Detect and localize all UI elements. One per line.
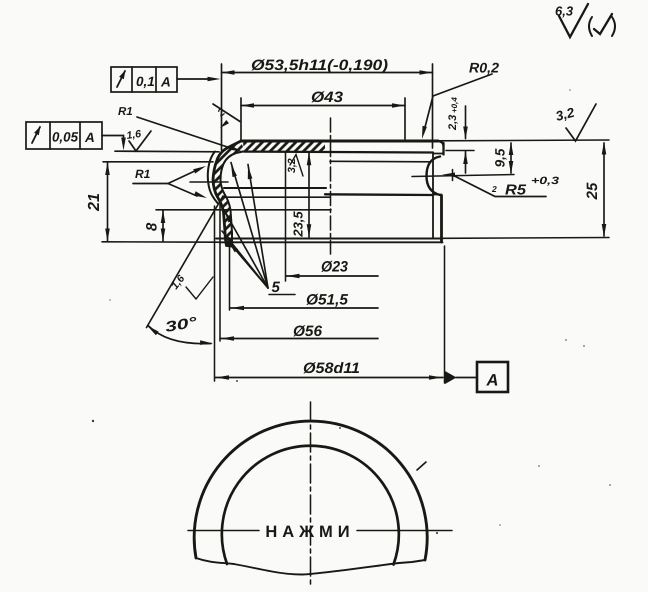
svg-text:Ø51,5: Ø51,5 <box>306 292 349 309</box>
svg-text:R0,2: R0,2 <box>469 60 499 76</box>
leader from frame 0,05 <box>102 136 124 142</box>
svg-text:Ø58d11: Ø58d11 <box>303 360 360 377</box>
roughness 1,6 on 30 deg chamfer <box>186 277 213 299</box>
roughness 3,2 top right <box>566 104 596 141</box>
svg-text:23,5: 23,5 <box>291 211 306 238</box>
svg-text:Ø53,5h11(-0,190): Ø53,5h11(-0,190) <box>251 57 388 74</box>
bottom rim extension to right <box>443 237 610 240</box>
svg-text:9,5: 9,5 <box>493 148 508 167</box>
svg-text:R1: R1 <box>118 106 133 118</box>
scan specks <box>92 420 94 422</box>
dim Ø56 <box>219 204 221 341</box>
svg-text:+0,3: +0,3 <box>531 175 559 187</box>
flange top surface extension line <box>115 150 219 153</box>
inner shoulder line right <box>330 160 430 163</box>
svg-text:8: 8 <box>144 222 161 231</box>
dim 8 line <box>162 210 164 241</box>
svg-text:25: 25 <box>584 182 601 200</box>
svg-text:A: A <box>84 130 95 145</box>
right rim band edge <box>442 143 444 155</box>
left flange outer profile <box>213 141 241 246</box>
tolerance frame 0,05/A <box>26 122 102 149</box>
internal edge line B <box>224 196 330 198</box>
svg-text:НАЖМИ: НАЖМИ <box>265 523 354 541</box>
inner circle arc <box>222 446 399 565</box>
angle 30 arc <box>148 326 211 344</box>
svg-text:5: 5 <box>272 279 281 296</box>
svg-text:Ø43: Ø43 <box>311 89 344 106</box>
roughness 3,2 on underside <box>290 155 303 177</box>
break wavy line <box>196 558 425 575</box>
dim Ø43 extension left <box>240 98 242 141</box>
svg-text:Ø23: Ø23 <box>321 259 349 276</box>
svg-text:A: A <box>486 372 499 390</box>
left flange inner profile <box>221 152 244 246</box>
svg-text:2,3: 2,3 <box>447 115 459 131</box>
roughness 1,6 on flange surface <box>129 131 151 151</box>
horizontal centerline right <box>357 530 452 532</box>
inner skirt surface right <box>432 153 434 238</box>
internal edge line A <box>224 187 326 189</box>
dim Ø23 <box>285 152 287 281</box>
internal edge line C <box>221 209 331 211</box>
vertical centerline <box>310 402 312 588</box>
dim 23,5 <box>308 152 310 237</box>
svg-text:R1: R1 <box>135 167 151 181</box>
svg-text:A: A <box>160 75 171 90</box>
small tick on outer arc <box>417 462 426 470</box>
dim Ø51,5 <box>229 244 231 310</box>
groove R5 profile <box>427 157 441 196</box>
groove lower shoulder <box>433 194 442 196</box>
centerline of section <box>330 118 332 254</box>
dim Ø58d11 <box>214 206 216 381</box>
dim Ø53,5h11 line <box>222 72 433 74</box>
tolerance frame 0,1/A <box>111 67 177 92</box>
chamfer callout line <box>213 104 240 122</box>
dim Ø53,5h11 extension left <box>221 64 223 150</box>
svg-text:0,1: 0,1 <box>136 74 155 89</box>
svg-text:Ø56: Ø56 <box>293 323 323 340</box>
dim 21 extension top <box>103 161 213 163</box>
hatch: chamfer corner wedge <box>231 142 245 154</box>
flange outer silhouette curve <box>208 152 218 204</box>
top-right corner R0,2 <box>438 141 444 146</box>
internal edge line right half <box>325 193 433 196</box>
svg-text:2: 2 <box>491 184 497 194</box>
part top face <box>241 140 438 143</box>
svg-text:6,3: 6,3 <box>555 4 574 19</box>
svg-text:3,2: 3,2 <box>286 158 298 173</box>
outer circle arc <box>194 421 427 560</box>
horizontal centerline left <box>188 530 259 532</box>
svg-text:21: 21 <box>86 193 103 212</box>
svg-text:R5: R5 <box>505 183 527 199</box>
angle 30 construction line <box>147 196 224 328</box>
groove top shoulder <box>433 153 443 155</box>
hatch: left flange curl cut band <box>213 141 243 246</box>
dim Ø53,5h11 extension right <box>432 64 434 148</box>
dim 9,5 <box>412 175 514 177</box>
dim 2,3+0,4 <box>465 106 467 139</box>
wall underside line <box>244 151 433 154</box>
dim Ø43 line <box>241 105 405 107</box>
outer skirt right <box>440 196 443 243</box>
bottom rim edge 1 <box>216 238 443 240</box>
svg-text:1,6: 1,6 <box>126 128 142 142</box>
svg-text:+0,4: +0,4 <box>450 97 459 113</box>
dim Ø43 extension right <box>404 98 406 139</box>
hatch: top wall cut area <box>243 142 325 152</box>
dim 8 extension <box>156 209 221 211</box>
datum A triangle and box <box>445 371 457 384</box>
groove shoulder extension <box>446 150 474 152</box>
leader R5+0,3 <box>452 170 454 181</box>
dim 21 line <box>107 162 109 241</box>
extension right for datum <box>444 246 446 383</box>
leader from frame 0,1 <box>177 78 210 80</box>
top face extension to right <box>437 139 609 142</box>
bottom rim edge 2 <box>219 241 443 243</box>
dim 25 <box>603 143 605 236</box>
stray extension line <box>190 181 228 183</box>
leader fan 5 <box>231 163 268 289</box>
svg-text:0,05: 0,05 <box>52 130 78 145</box>
dim 21/8 extension bottom <box>102 241 218 243</box>
